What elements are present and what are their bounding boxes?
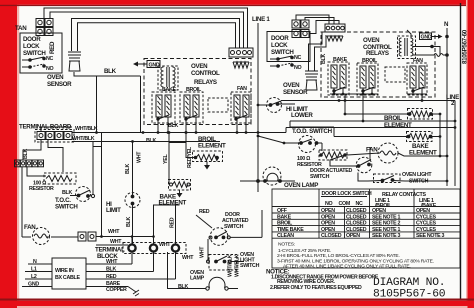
svg-text:NC: NC xyxy=(294,55,302,61)
svg-text:WHT: WHT xyxy=(159,242,171,248)
svg-text:NC: NC xyxy=(356,201,364,207)
svg-text:SEE NOTE 3: SEE NOTE 3 xyxy=(416,233,445,239)
svg-text:WIRE IN: WIRE IN xyxy=(55,268,74,274)
svg-text:CLOSED: CLOSED xyxy=(346,208,367,214)
wire vertical yel xyxy=(168,133,170,185)
svg-text:COPPER: COPPER xyxy=(106,287,127,293)
svg-text:SEE NOTE 1: SEE NOTE 1 xyxy=(372,214,401,220)
svg-text:8105P567-60: 8105P567-60 xyxy=(373,289,446,301)
svg-text:WHT: WHT xyxy=(108,229,120,235)
svg-text:NO: NO xyxy=(294,65,302,71)
svg-text:GND: GND xyxy=(421,35,432,41)
transformer T1 xyxy=(158,66,178,90)
wires connector to control right xyxy=(296,15,329,24)
fan motor (upper) xyxy=(22,228,78,245)
svg-text:CONTROL: CONTROL xyxy=(191,70,220,77)
wire vertical at 96 xyxy=(96,76,98,133)
svg-text:DOOR: DOOR xyxy=(23,36,41,43)
broil element (upper) xyxy=(193,151,223,170)
supply labels xyxy=(28,259,39,288)
cable color labels xyxy=(106,259,127,293)
table verticals xyxy=(318,189,320,238)
terminal board TB1 xyxy=(35,130,74,143)
connector 4-pin top right control xyxy=(325,24,345,32)
wire harness run 1 xyxy=(44,8,248,48)
svg-text:CLOSED: CLOSED xyxy=(346,221,367,227)
svg-text:GND: GND xyxy=(28,282,39,288)
bake element label (upper) xyxy=(159,194,187,207)
svg-text:BLK: BLK xyxy=(125,164,131,174)
wire bus whtblk 1 xyxy=(72,132,286,134)
svg-text:LAMP: LAMP xyxy=(190,276,205,282)
door lock switch box (upper oven) xyxy=(20,33,62,73)
svg-text:OPEN: OPEN xyxy=(346,233,360,239)
hi limit switch (upper) xyxy=(125,193,140,208)
svg-text:BLK: BLK xyxy=(321,54,327,64)
wire blk drop to bus xyxy=(140,76,142,133)
oven light switch label (lower) xyxy=(402,172,432,185)
relay contacts marks left xyxy=(157,115,247,120)
wire toc to fan row xyxy=(21,167,23,237)
svg-text:SEE NOTE 2: SEE NOTE 2 xyxy=(372,221,401,227)
coil below connector xyxy=(233,62,249,68)
door actuated switch (left) xyxy=(208,228,262,262)
junction dots right xyxy=(257,93,457,183)
svg-text:OPEN: OPEN xyxy=(321,214,335,220)
wire bus whtblk 2 xyxy=(72,141,220,143)
wire terminal block 2 up xyxy=(153,252,155,272)
oven light switch (lower) xyxy=(368,174,405,183)
svg-text:FAN: FAN xyxy=(366,147,378,154)
relay K4 BAKE xyxy=(328,57,349,95)
svg-text:FAN: FAN xyxy=(24,224,36,231)
svg-text:BLK: BLK xyxy=(23,149,29,159)
table row BAKE xyxy=(277,214,436,220)
svg-text:BAKE: BAKE xyxy=(277,214,292,220)
svg-text:2.REFER ONLY TO FEATURES EQUIP: 2.REFER ONLY TO FEATURES EQUIPPED xyxy=(270,285,362,291)
svg-text:SWITCH: SWITCH xyxy=(55,204,78,211)
svg-text:NC: NC xyxy=(46,56,54,62)
red frame left band xyxy=(0,0,17,308)
svg-text:OVEN: OVEN xyxy=(283,82,300,89)
svg-text:OVEN: OVEN xyxy=(47,74,64,81)
svg-text:BLK: BLK xyxy=(168,123,178,129)
oven lamp (upper) xyxy=(240,167,295,185)
wire terminal block 3 up xyxy=(175,252,177,279)
svg-text:BROIL: BROIL xyxy=(277,221,293,227)
relay K3 FAN xyxy=(231,86,251,123)
svg-text:LOWER: LOWER xyxy=(291,112,313,119)
svg-text:RESISTOR: RESISTOR xyxy=(29,186,54,192)
table row TIME BAKE xyxy=(277,227,436,233)
oven control label xyxy=(191,63,220,86)
broil element label (lower) xyxy=(384,115,412,129)
broil element label (upper) xyxy=(198,136,226,150)
top band dark edge xyxy=(0,5,474,6)
door lock switch label right xyxy=(271,35,294,56)
tod switch (lower) xyxy=(284,136,322,153)
contacts table outline xyxy=(272,189,460,268)
cable wires out xyxy=(86,264,176,287)
svg-text:NO: NO xyxy=(325,201,333,207)
door actuated switch label (left) xyxy=(222,212,249,230)
relay legs fan xyxy=(236,117,238,133)
line 2 feeder xyxy=(454,101,456,187)
svg-text:WHT: WHT xyxy=(182,255,194,261)
wire from board upper xyxy=(41,127,72,132)
wire vertical wht xyxy=(132,142,134,193)
wire red vertical xyxy=(175,205,177,244)
connector squares pair xyxy=(78,232,96,241)
svg-text:ELEMENT: ELEMENT xyxy=(198,143,226,150)
red frame top band xyxy=(0,0,474,5)
svg-text:YEL: YEL xyxy=(163,154,169,164)
oven control box (lower oven, dashed) xyxy=(321,32,435,97)
table row CLEAN xyxy=(277,233,445,239)
svg-text:2-HI BROIL-FULL RATE, LO BROIL: 2-HI BROIL-FULL RATE, LO BROIL-CYCLES AT… xyxy=(277,253,400,259)
bare copper ground symbol xyxy=(128,287,139,297)
bottom band dark edge xyxy=(0,299,474,301)
svg-text:OPEN: OPEN xyxy=(321,208,335,214)
connector 4-pin top of control xyxy=(229,48,253,57)
svg-text:ELEMENT: ELEMENT xyxy=(409,150,437,157)
hi limit lower label xyxy=(286,106,313,119)
svg-text:DIAGRAM NO.: DIAGRAM NO. xyxy=(373,277,445,289)
resistor label (lower) xyxy=(297,156,322,168)
svg-text:CLEAN: CLEAN xyxy=(277,233,294,239)
wires terminal block tops up xyxy=(131,237,133,245)
door lock switch contacts xyxy=(22,57,45,68)
wire board drop xyxy=(48,140,63,173)
svg-text:CYCLES: CYCLES xyxy=(416,221,436,227)
svg-text:AFTER 40 MIN. LINE 1/BAKE CYCL: AFTER 40 MIN. LINE 1/BAKE CYCLING ONLY A… xyxy=(283,264,411,270)
labels NC NO right xyxy=(294,55,302,71)
svg-text:CLOSED: CLOSED xyxy=(321,233,342,239)
oven sensor label xyxy=(47,74,72,88)
terminal block label xyxy=(95,247,125,261)
oven lamp label (upper) xyxy=(284,182,318,189)
svg-text:N: N xyxy=(33,259,37,265)
wire red diag to door sw xyxy=(196,215,212,228)
svg-text:L2: L2 xyxy=(31,274,37,280)
wires from switches right xyxy=(261,210,263,237)
oven light switch label (left) xyxy=(240,252,260,269)
oven sensor wires right xyxy=(309,32,323,71)
svg-text:TAN: TAN xyxy=(15,25,27,32)
resistor 100 ohm (upper) xyxy=(44,173,76,184)
svg-text:SENSOR: SENSOR xyxy=(47,81,72,88)
connector pair upper left J1 xyxy=(36,19,53,27)
svg-text:OPEN: OPEN xyxy=(416,208,430,214)
svg-text:3-FIRST 40 MIN. LINE 1/BROIL O: 3-FIRST 40 MIN. LINE 1/BROIL OPERATING O… xyxy=(277,258,434,264)
oven lamp label (left bottom) xyxy=(190,270,205,282)
wire lamp left xyxy=(168,252,207,289)
bus wire 1 xyxy=(286,127,455,129)
svg-text:BLK: BLK xyxy=(146,138,156,144)
toc switch label xyxy=(55,197,78,211)
relay legs broil xyxy=(185,117,187,133)
wire in bx cable box xyxy=(52,258,86,289)
svg-text:COM: COM xyxy=(339,201,351,207)
labels NC NO xyxy=(46,56,54,72)
svg-text:ELEMENT: ELEMENT xyxy=(384,122,412,129)
oven light switch (left) contacts xyxy=(207,255,245,271)
wire from connector right xyxy=(96,236,154,238)
svg-text:CYCLES: CYCLES xyxy=(416,227,436,233)
door lock switch box (lower oven) xyxy=(267,32,310,62)
empty dashed box xyxy=(208,98,228,112)
bottom band pale strip xyxy=(14,306,466,308)
door actuated switch (lower) xyxy=(345,157,372,173)
svg-text:CLOSED: CLOSED xyxy=(346,227,367,233)
svg-text:8105P567-60: 8105P567-60 xyxy=(462,29,469,64)
svg-text:SWITCH: SWITCH xyxy=(271,49,294,56)
svg-text:OVEN LAMP: OVEN LAMP xyxy=(284,182,318,189)
label 100 ohm resistor xyxy=(29,181,54,193)
svg-text:RED: RED xyxy=(170,217,176,228)
svg-text:RED: RED xyxy=(199,209,210,215)
svg-text:SEE NOTE 1: SEE NOTE 1 xyxy=(372,227,401,233)
table header text xyxy=(322,191,437,209)
wire vertical 103 xyxy=(101,133,103,237)
bridge wire xyxy=(93,146,102,148)
red frame bottom band xyxy=(0,301,474,306)
svg-text:WHT/BLK: WHT/BLK xyxy=(235,254,241,277)
svg-text:BLK: BLK xyxy=(126,217,132,227)
svg-text:NOTES:: NOTES: xyxy=(278,242,295,248)
svg-text:BLK: BLK xyxy=(178,284,188,290)
gnd box right xyxy=(420,33,443,41)
table row OFF xyxy=(277,208,430,214)
wire harness run 3 (oven sensor) xyxy=(72,19,240,52)
svg-text:OPEN: OPEN xyxy=(321,227,335,233)
svg-text:DOOR: DOOR xyxy=(271,35,289,42)
wire harness run 2 xyxy=(50,12,244,48)
empty dashed box right xyxy=(385,67,405,82)
svg-text:LOCK: LOCK xyxy=(271,42,288,49)
svg-text:L1: L1 xyxy=(31,267,37,273)
N feeder wire xyxy=(446,28,448,186)
hi limit label (upper) xyxy=(106,201,121,214)
svg-text:RELAYS: RELAYS xyxy=(194,79,217,86)
connector pair lower left J2 xyxy=(36,28,53,36)
svg-text:SWITCH: SWITCH xyxy=(224,224,244,230)
red frame right band xyxy=(468,0,474,308)
svg-text:BX CABLE: BX CABLE xyxy=(55,275,80,281)
header underline door lock xyxy=(321,196,367,198)
relay K2 BROIL xyxy=(180,87,203,123)
svg-text:SWITCH: SWITCH xyxy=(240,263,260,269)
right band pale fringe xyxy=(466,0,468,308)
notes text xyxy=(277,242,434,270)
wires right area xyxy=(281,100,455,102)
fan motor (lower) xyxy=(378,143,398,163)
wire in bx cable label xyxy=(55,268,80,281)
coil below connector right xyxy=(327,36,343,41)
svg-text:T.O.D. SWITCH: T.O.D. SWITCH xyxy=(292,128,333,135)
transformer T2 xyxy=(398,30,449,59)
red corner bottom left xyxy=(0,301,17,308)
svg-text:SEE NOTE 3: SEE NOTE 3 xyxy=(372,233,401,239)
svg-text:OVEN: OVEN xyxy=(191,63,208,70)
wire terminal block 1 up xyxy=(131,252,133,264)
oven control box (upper oven, dashed) xyxy=(144,59,251,125)
bake element label (lower) xyxy=(409,143,437,157)
svg-text:RELAYS: RELAYS xyxy=(366,50,389,57)
connector pair right J4 xyxy=(292,30,309,38)
door actuated switch label (lower) xyxy=(310,168,352,180)
oven sensor plug (upper) xyxy=(68,52,81,71)
notice text xyxy=(266,269,379,292)
wire harness run 4 (oven sensor) xyxy=(78,23,236,51)
relay K5 BROIL xyxy=(357,58,378,95)
svg-text:OVEN: OVEN xyxy=(363,37,380,44)
connector row left CN1 xyxy=(15,160,44,167)
connector pair right J3 xyxy=(292,20,309,28)
svg-text:NO: NO xyxy=(46,66,54,72)
svg-text:SWITCH: SWITCH xyxy=(310,174,330,180)
wire blk from sensor bottom xyxy=(74,72,141,76)
supply leads N L1 L2 GND xyxy=(22,264,52,287)
svg-text:WHT/BLK: WHT/BLK xyxy=(228,254,234,277)
table row BROIL xyxy=(277,221,436,227)
svg-text:WHT/BLK: WHT/BLK xyxy=(75,126,98,132)
bake element (upper) xyxy=(169,180,191,198)
oven sensor plug (lower) xyxy=(305,71,318,90)
oven lamp symbol (bottom) xyxy=(206,277,238,290)
label LINE 2 xyxy=(446,94,459,107)
junction dots bus xyxy=(95,131,247,238)
svg-text:WHT: WHT xyxy=(110,239,122,245)
svg-text:CLOSED: CLOSED xyxy=(346,214,367,220)
relay K6 FAN xyxy=(407,58,427,95)
svg-text:DOOR LOCK SWITCH: DOOR LOCK SWITCH xyxy=(322,191,372,197)
diagram number xyxy=(373,277,446,301)
relay legs bake xyxy=(157,117,159,133)
oven sensor label right xyxy=(283,82,308,96)
terminal block dashed outline xyxy=(123,243,186,254)
svg-text:OPEN: OPEN xyxy=(321,221,335,227)
svg-text:SENSOR: SENSOR xyxy=(283,89,308,96)
svg-text:OVEN LIGHT: OVEN LIGHT xyxy=(402,172,432,178)
gnd box xyxy=(133,61,160,69)
svg-text:FAN: FAN xyxy=(237,86,247,92)
svg-text:OPEN: OPEN xyxy=(372,208,386,214)
wire board to left col xyxy=(23,140,41,161)
hi limit lower switch xyxy=(258,98,295,113)
svg-text:SWITCH: SWITCH xyxy=(23,50,46,57)
svg-text:BLK: BLK xyxy=(104,68,117,75)
svg-text:TIME BAKE: TIME BAKE xyxy=(277,227,304,233)
svg-text:CYCLES: CYCLES xyxy=(416,214,436,220)
svg-text:LIMIT: LIMIT xyxy=(106,207,121,214)
svg-text:LOCK: LOCK xyxy=(23,43,40,50)
relay legs right xyxy=(333,88,335,94)
wire wht horizontal xyxy=(96,244,128,246)
svg-text:LINE 1: LINE 1 xyxy=(252,16,270,23)
svg-text:WHT: WHT xyxy=(137,151,143,163)
svg-text:OFF: OFF xyxy=(277,208,288,214)
broil element (lower) xyxy=(408,109,433,120)
diagram black border right xyxy=(460,3,462,299)
left band pale fringe xyxy=(17,0,19,308)
door lock switch label xyxy=(23,36,46,57)
line 1 feeder wire xyxy=(257,23,259,192)
wire vertical red/yel xyxy=(169,133,186,143)
relay contacts marks right xyxy=(333,87,424,92)
table horizontals xyxy=(272,206,460,208)
svg-text:RED: RED xyxy=(49,41,56,54)
terminal block posts xyxy=(128,244,179,251)
junction dots bottom xyxy=(131,235,155,238)
door lock contacts right xyxy=(270,56,293,67)
svg-text:WHT: WHT xyxy=(200,246,206,258)
toc switch (upper) xyxy=(70,142,95,202)
resistor 100 ohm (lower) xyxy=(319,150,347,160)
wire from connector down xyxy=(27,167,46,176)
bake element (lower) xyxy=(407,132,433,142)
oven control label right xyxy=(363,37,392,57)
relay K1 BAKE xyxy=(152,87,177,123)
